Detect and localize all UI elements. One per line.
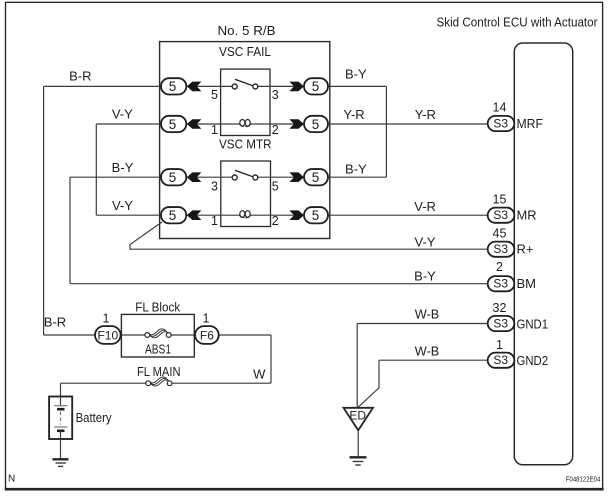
svg-text:MRF: MRF	[517, 116, 544, 131]
svg-text:V-R: V-R	[414, 199, 436, 214]
svg-text:5: 5	[312, 170, 320, 185]
svg-text:2: 2	[496, 260, 503, 274]
svg-text:1: 1	[211, 123, 218, 137]
svg-text:45: 45	[493, 227, 507, 241]
svg-text:B-Y: B-Y	[345, 162, 367, 177]
svg-text:F048122E04: F048122E04	[566, 476, 601, 483]
svg-text:R+: R+	[517, 242, 534, 257]
svg-text:1: 1	[203, 312, 210, 326]
svg-text:W-B: W-B	[415, 343, 440, 358]
svg-text:B-Y: B-Y	[345, 67, 367, 82]
svg-text:1: 1	[103, 312, 110, 326]
svg-text:ED: ED	[349, 409, 366, 423]
svg-text:Y-R: Y-R	[415, 107, 436, 122]
svg-text:W: W	[253, 367, 266, 382]
svg-text:14: 14	[493, 101, 507, 115]
svg-text:FL MAIN: FL MAIN	[137, 364, 181, 379]
svg-text:S3: S3	[493, 242, 508, 256]
svg-text:1: 1	[496, 338, 503, 352]
svg-text:S3: S3	[493, 353, 508, 367]
svg-text:ABS1: ABS1	[145, 341, 171, 356]
svg-text:F10: F10	[97, 328, 118, 342]
svg-text:Battery: Battery	[76, 410, 112, 425]
svg-text:VSC FAIL: VSC FAIL	[219, 44, 271, 59]
svg-text:B-R: B-R	[44, 315, 66, 330]
svg-text:5: 5	[169, 117, 177, 132]
svg-text:No. 5 R/B: No. 5 R/B	[218, 23, 276, 38]
svg-text:2: 2	[272, 123, 279, 137]
svg-text:5: 5	[211, 88, 218, 102]
svg-text:2: 2	[272, 214, 279, 228]
svg-text:S3: S3	[493, 208, 508, 222]
svg-text:1: 1	[211, 214, 218, 228]
svg-text:MR: MR	[517, 208, 537, 223]
svg-text:V-Y: V-Y	[415, 234, 436, 249]
svg-text:GND1: GND1	[517, 316, 549, 331]
svg-text:B-Y: B-Y	[112, 160, 134, 175]
svg-text:5: 5	[169, 208, 177, 223]
svg-text:W-B: W-B	[415, 306, 440, 321]
svg-text:S3: S3	[493, 277, 508, 291]
svg-text:N: N	[8, 474, 15, 485]
svg-text:5: 5	[272, 180, 279, 194]
svg-text:5: 5	[169, 79, 177, 94]
svg-text:V-Y: V-Y	[112, 107, 133, 122]
svg-text:Y-R: Y-R	[343, 107, 364, 122]
svg-text:15: 15	[493, 193, 507, 207]
svg-text:5: 5	[312, 79, 320, 94]
svg-text:BM: BM	[517, 276, 537, 291]
svg-text:3: 3	[272, 88, 279, 102]
svg-text:VSC MTR: VSC MTR	[219, 137, 272, 152]
svg-text:GND2: GND2	[517, 353, 549, 368]
svg-text:Skid Control ECU with Actuator: Skid Control ECU with Actuator	[437, 15, 599, 30]
svg-text:S3: S3	[493, 317, 508, 331]
svg-text:FL Block: FL Block	[135, 299, 180, 314]
svg-text:32: 32	[493, 301, 507, 315]
svg-text:B-R: B-R	[69, 68, 91, 83]
svg-text:3: 3	[211, 180, 218, 194]
svg-text:V-Y: V-Y	[112, 198, 133, 213]
svg-text:B-Y: B-Y	[414, 268, 436, 283]
svg-text:5: 5	[312, 117, 320, 132]
svg-text:F6: F6	[200, 328, 214, 342]
svg-text:5: 5	[312, 208, 320, 223]
svg-text:S3: S3	[493, 117, 508, 131]
svg-text:5: 5	[169, 170, 177, 185]
